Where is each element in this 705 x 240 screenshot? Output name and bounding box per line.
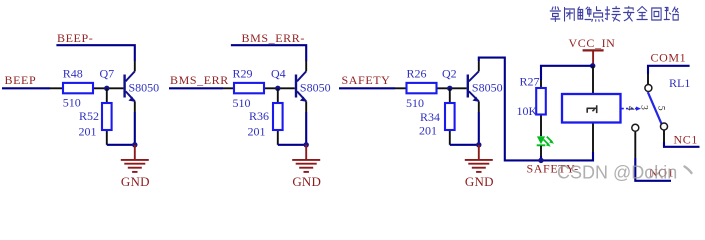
- resistor R48: [50, 67, 123, 110]
- title 路: [664, 7, 678, 20]
- svg-text:BMS_ERR-: BMS_ERR-: [242, 31, 305, 45]
- svg-text:CSDN @Dokin: CSDN @Dokin: [557, 163, 677, 183]
- power VCC_IN: [569, 36, 616, 65]
- svg-text:Q7: Q7: [100, 67, 115, 81]
- svg-text:201: 201: [79, 125, 97, 139]
- svg-text:S8050: S8050: [129, 81, 160, 95]
- node: [132, 142, 137, 147]
- svg-text:GND: GND: [121, 174, 150, 189]
- svg-text:5: 5: [655, 106, 665, 111]
- svg-text:R52: R52: [79, 109, 99, 123]
- svg-text:BEEP: BEEP: [5, 73, 37, 87]
- svg-text:201: 201: [248, 125, 266, 139]
- svg-text:4: 4: [625, 106, 635, 111]
- svg-text:Q2: Q2: [442, 67, 457, 81]
- svg-text:GND: GND: [292, 174, 321, 189]
- resistor R29: [223, 67, 295, 111]
- title 触: [578, 7, 591, 20]
- title 安: [624, 7, 634, 22]
- transistor Q2: [442, 61, 503, 112]
- svg-text:Q4: Q4: [271, 67, 286, 81]
- svg-text:R36: R36: [249, 109, 269, 123]
- resistor R36: [248, 88, 283, 145]
- resistor R26: [395, 67, 467, 111]
- wire: [231, 45, 306, 61]
- transistor Q7: [100, 61, 160, 112]
- wire: [56, 45, 134, 61]
- svg-text:NC1: NC1: [674, 133, 698, 147]
- relay RL1: [562, 66, 690, 158]
- svg-text:510: 510: [63, 96, 81, 110]
- svg-text:3: 3: [638, 105, 648, 110]
- wire: [450, 112, 479, 145]
- node: [538, 158, 543, 163]
- node: [275, 86, 280, 91]
- ground: [465, 145, 493, 172]
- svg-text:R27: R27: [520, 75, 540, 89]
- title 点: [592, 7, 603, 22]
- ground: [121, 145, 149, 172]
- title 全: [637, 7, 647, 20]
- title 回: [652, 8, 661, 20]
- svg-text:RL1: RL1: [669, 76, 690, 90]
- watermark tick: [685, 167, 692, 174]
- node: [304, 142, 309, 147]
- node: [447, 86, 452, 91]
- title 接: [605, 7, 620, 22]
- wire: [541, 66, 593, 80]
- title 闭: [565, 8, 575, 22]
- wire: [635, 158, 671, 181]
- svg-text:BMS_ERR: BMS_ERR: [170, 73, 229, 87]
- title 常: [550, 7, 560, 22]
- transistor Q4: [271, 61, 331, 112]
- svg-text:R29: R29: [233, 67, 253, 81]
- wire: [648, 66, 690, 74]
- ground: [292, 145, 320, 172]
- node: [590, 63, 595, 68]
- node: [104, 86, 109, 91]
- svg-text:R26: R26: [407, 67, 427, 81]
- svg-text:10K: 10K: [517, 104, 538, 118]
- node: [476, 142, 481, 147]
- wire: [169, 87, 223, 89]
- svg-text:GND: GND: [465, 174, 494, 189]
- svg-text:S8050: S8050: [300, 81, 331, 95]
- svg-text:R48: R48: [63, 67, 83, 81]
- svg-text:R34: R34: [420, 110, 440, 124]
- resistor R27: [517, 75, 546, 137]
- wire: [479, 58, 593, 161]
- LED D1: [537, 136, 554, 160]
- svg-text:BEEP-: BEEP-: [57, 31, 93, 45]
- svg-text:VCC_IN: VCC_IN: [569, 36, 616, 50]
- svg-text:COM1: COM1: [651, 51, 687, 65]
- wire: [339, 87, 395, 89]
- wire: [107, 112, 135, 145]
- svg-text:SAFETY: SAFETY: [342, 73, 391, 87]
- svg-text:S8050: S8050: [472, 81, 503, 95]
- resistor R34: [419, 88, 455, 145]
- resistor R52: [79, 88, 112, 145]
- wire: [278, 112, 306, 145]
- svg-text:510: 510: [406, 96, 424, 110]
- wire: [2, 87, 50, 89]
- svg-text:201: 201: [419, 124, 437, 138]
- wire: [664, 142, 700, 147]
- svg-text:510: 510: [233, 96, 251, 110]
